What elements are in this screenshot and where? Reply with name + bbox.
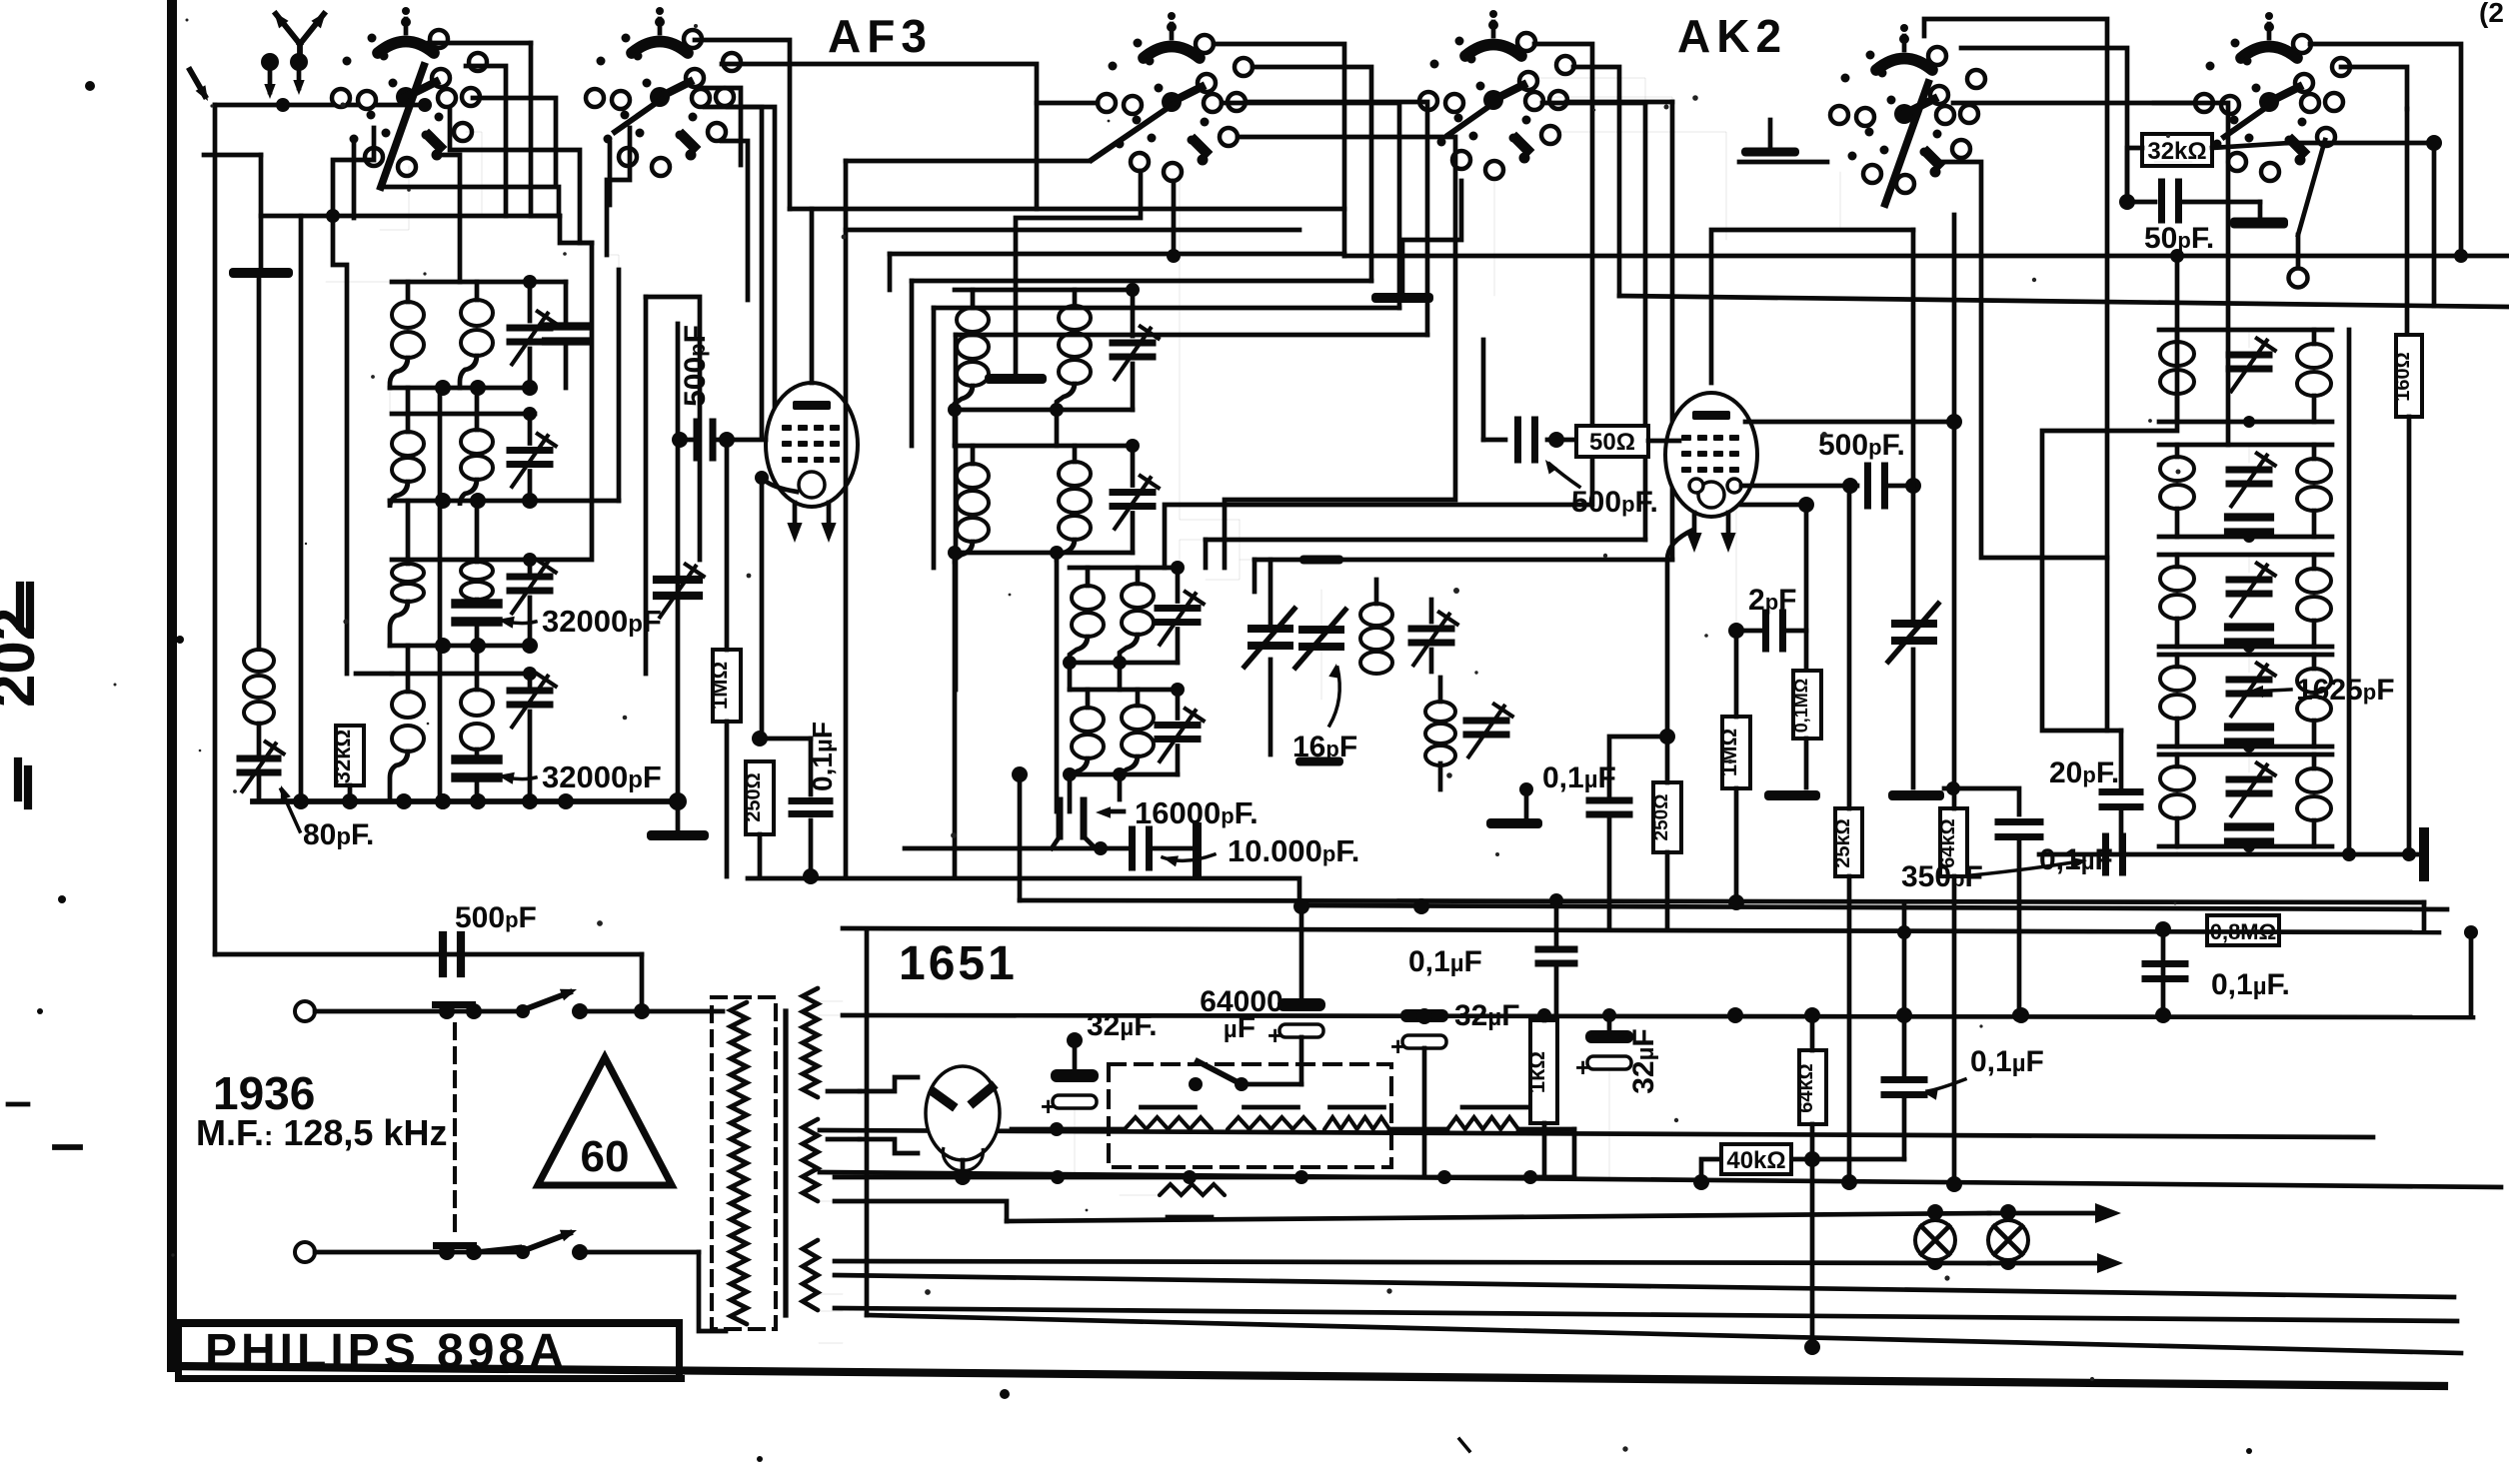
svg-text:AK2: AK2 <box>1677 10 1787 62</box>
svg-text:0,1µF.: 0,1µF. <box>2211 968 2290 1001</box>
svg-text:1MΩ: 1MΩ <box>707 662 732 710</box>
svg-text:0,1µF: 0,1µF <box>1408 945 1482 978</box>
svg-text:40kΩ: 40kΩ <box>1726 1147 1785 1174</box>
svg-text:500pF.: 500pF. <box>1571 486 1658 519</box>
svg-text:500pF: 500pF <box>679 325 712 407</box>
svg-text:0,1µF: 0,1µF <box>1970 1045 2044 1078</box>
svg-text:32000pF: 32000pF <box>542 759 662 794</box>
svg-text:+: + <box>1041 1091 1056 1121</box>
svg-text:50Ω: 50Ω <box>1589 429 1635 456</box>
svg-text:+: + <box>1267 1020 1282 1050</box>
svg-text:32000pF: 32000pF <box>542 604 662 639</box>
svg-text:AF3: AF3 <box>828 10 933 62</box>
svg-text:0,1MΩ: 0,1MΩ <box>1791 679 1811 733</box>
svg-text:0,1µF: 0,1µF <box>807 722 838 791</box>
svg-text:32µF.: 32µF. <box>1087 1009 1158 1042</box>
svg-text:16pF: 16pF <box>1292 731 1357 763</box>
svg-text:M.F.: 128,5 kHz: M.F.: 128,5 kHz <box>196 1112 447 1153</box>
svg-text:1MΩ: 1MΩ <box>1716 729 1741 776</box>
svg-text:160Ω: 160Ω <box>2392 352 2414 401</box>
svg-text:32kΩ: 32kΩ <box>2147 138 2206 165</box>
svg-text:0,1µF: 0,1µF <box>1542 761 1616 794</box>
svg-text:500pF.: 500pF. <box>1818 429 1905 462</box>
svg-text:+: + <box>1575 1052 1590 1082</box>
svg-text:µF: µF <box>1224 1011 1255 1044</box>
svg-text:PHILIPS 898A: PHILIPS 898A <box>205 1325 568 1378</box>
svg-text:(2: (2 <box>2479 0 2504 28</box>
svg-text:32µF: 32µF <box>1454 999 1520 1032</box>
svg-text:60: 60 <box>581 1132 630 1181</box>
svg-text:32µF: 32µF <box>1627 1028 1660 1094</box>
svg-text:25kΩ: 25kΩ <box>1832 818 1854 867</box>
svg-text:+: + <box>1390 1031 1405 1061</box>
svg-text:1625pF: 1625pF <box>2296 674 2395 707</box>
svg-text:250Ω: 250Ω <box>743 772 765 821</box>
svg-text:250Ω: 250Ω <box>1651 794 1672 841</box>
svg-text:64kΩ: 64kΩ <box>1795 1063 1817 1112</box>
svg-text:32kΩ: 32kΩ <box>330 730 355 783</box>
svg-text:10.000pF.: 10.000pF. <box>1228 833 1359 868</box>
svg-text:1kΩ: 1kΩ <box>1524 1051 1549 1093</box>
svg-text:500pF: 500pF <box>455 901 537 934</box>
svg-text:80pF.: 80pF. <box>303 818 374 851</box>
svg-text:1651: 1651 <box>899 937 1018 990</box>
